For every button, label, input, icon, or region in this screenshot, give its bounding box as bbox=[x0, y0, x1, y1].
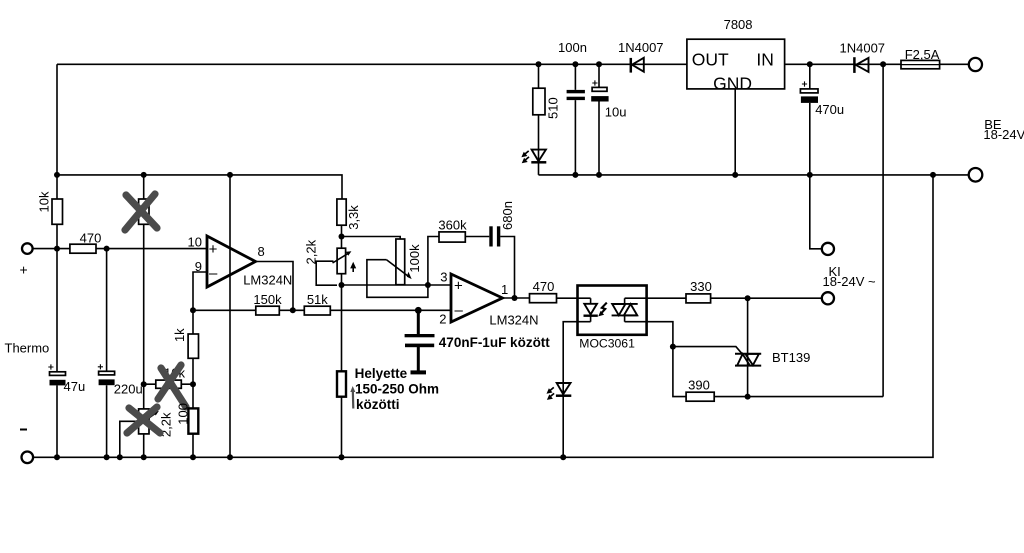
resistor 10k (thermistor pull-up) bbox=[37, 191, 63, 224]
svg-text:150-250 Ohm: 150-250 Ohm bbox=[355, 381, 439, 396]
svg-text:GND: GND bbox=[713, 74, 752, 94]
wire right ground rail y=175 bbox=[539, 174, 969, 176]
wire 360k to 680n to output node bbox=[465, 237, 514, 299]
resistor 330 bbox=[686, 279, 712, 303]
wire 2.2k trimmer wiper loop bbox=[316, 261, 337, 285]
resistor 150k bbox=[253, 292, 282, 315]
resistor 360k bbox=[438, 218, 467, 243]
svg-text:390: 390 bbox=[688, 377, 710, 392]
wire gate node down to 390 bbox=[673, 347, 686, 397]
wire 510/LED1 chain x=538.5 bbox=[538, 64, 540, 175]
svg-text:–: – bbox=[455, 302, 464, 319]
wire threshold row y=285 to op-amp2 pin3 bbox=[342, 284, 452, 286]
svg-text:47u: 47u bbox=[64, 379, 86, 394]
wire 3.3k to 2.2k trimmer column x=341.5 bbox=[341, 225, 343, 457]
svg-text:2: 2 bbox=[439, 312, 446, 327]
svg-text:BT139: BT139 bbox=[772, 350, 810, 365]
svg-text:3: 3 bbox=[440, 270, 447, 285]
terminal thermo + bbox=[20, 243, 33, 277]
svg-text:2,2k: 2,2k bbox=[303, 239, 318, 264]
wire crossed 10k stubs bbox=[144, 383, 193, 385]
wire crossed-column x=143.7 bbox=[143, 175, 145, 457]
svg-text:1: 1 bbox=[501, 282, 508, 297]
triac BT139 bbox=[735, 350, 810, 366]
svg-text:közötti: közötti bbox=[356, 397, 400, 412]
capacitor 100n bbox=[558, 40, 587, 100]
svg-text:–: – bbox=[209, 265, 218, 282]
terminal KI lower bbox=[822, 292, 834, 304]
svg-text:8: 8 bbox=[258, 244, 265, 259]
wire op-amp1 output pin8 down to 150k/51k junction bbox=[256, 262, 294, 311]
svg-text:Helyette: Helyette bbox=[355, 366, 408, 381]
label BE 18-24V bbox=[983, 117, 1024, 142]
label Helyette 150-250 Ohm közötti bbox=[355, 366, 439, 412]
svg-text:220u: 220u bbox=[114, 382, 143, 397]
op-amp U1B LM324N bbox=[439, 270, 538, 328]
svg-text:100k: 100k bbox=[407, 244, 422, 273]
resistor 51k bbox=[304, 292, 330, 315]
svg-text:OUT: OUT bbox=[692, 50, 729, 70]
capacitor 10u bbox=[591, 80, 626, 119]
svg-text:330: 330 bbox=[690, 279, 712, 294]
svg-text:+: + bbox=[20, 262, 28, 278]
svg-text:18-24V ~: 18-24V ~ bbox=[823, 274, 877, 289]
wire 10u branch x=599 bbox=[598, 64, 600, 175]
LED1 (power indicator) bbox=[521, 150, 546, 164]
wire 470u branch down to KI upper terminal bbox=[810, 64, 822, 249]
svg-text:100: 100 bbox=[176, 403, 191, 425]
svg-text:Thermo: Thermo bbox=[5, 341, 50, 356]
resistor 510 bbox=[533, 88, 561, 119]
capacitor 470u bbox=[800, 81, 844, 116]
capacitor 470nF (thick hand-drawn) bbox=[405, 310, 435, 374]
terminal KI upper bbox=[822, 243, 834, 255]
op-amp U1A LM324N bbox=[188, 235, 293, 288]
svg-text:10k: 10k bbox=[37, 191, 52, 212]
svg-text:680n: 680n bbox=[500, 201, 515, 230]
wire feedback row y=310 (pin9 node,150k,51k,470n,pin2) bbox=[193, 309, 451, 311]
wire MOC triac bottom to gate node bbox=[625, 322, 673, 347]
svg-text:+: + bbox=[454, 278, 463, 295]
svg-text:100n: 100n bbox=[558, 40, 587, 55]
svg-text:9: 9 bbox=[195, 259, 202, 274]
optocoupler MOC3061 bbox=[578, 286, 647, 351]
svg-text:10u: 10u bbox=[605, 105, 627, 120]
wire hysteresis branch up from pin3 node bbox=[428, 237, 439, 286]
svg-text:360k: 360k bbox=[438, 218, 467, 233]
wire bottom ground rail y=457 bbox=[33, 175, 933, 457]
cross-out X3 bbox=[127, 407, 160, 433]
wire 220u branch x=106.6 bbox=[106, 249, 108, 458]
annotation arrow Helyette bbox=[350, 386, 355, 409]
resistor 390 bbox=[686, 377, 714, 401]
wire left mid rail y=175 (8V rail to 3.3k corner) bbox=[57, 175, 342, 199]
wire column x=230 (rail to rail through op-amp) bbox=[229, 175, 231, 457]
svg-text:3,3k: 3,3k bbox=[346, 205, 361, 230]
svg-text:470: 470 bbox=[80, 231, 102, 246]
resistor 470 (opto drive) bbox=[530, 279, 557, 303]
wire MOC triac top to 330 bbox=[625, 297, 686, 299]
resistor crossed 10k horizontal (deleted) bbox=[156, 366, 186, 389]
svg-text:18-24V: 18-24V bbox=[983, 127, 1024, 142]
wire 100k pot wiper loop bbox=[367, 260, 428, 298]
svg-text:LM324N: LM324N bbox=[489, 313, 538, 328]
svg-text:LM324N: LM324N bbox=[243, 273, 292, 288]
svg-text:1k: 1k bbox=[172, 328, 187, 342]
cross-out X2 bbox=[158, 365, 186, 407]
diode D2 1N4007 bbox=[840, 40, 886, 73]
wire top +V rail y=64 bbox=[57, 63, 969, 65]
resistor crossed-out vertical (deleted) bbox=[139, 199, 149, 224]
wire 1k/100 column x=193 bbox=[192, 310, 194, 457]
svg-text:1N4007: 1N4007 bbox=[840, 40, 886, 55]
svg-text:1N4007: 1N4007 bbox=[618, 40, 664, 55]
fuse F2,5A bbox=[901, 47, 940, 69]
regulator 7808 bbox=[687, 17, 785, 94]
potentiometer 100k bbox=[387, 239, 422, 285]
wire left vertical branch x=57 (top rail to thermo node to bottom rail, gap at 47u) bbox=[56, 64, 58, 457]
wire MOC led cathode out to LED2 chain bbox=[563, 322, 590, 458]
svg-text:470: 470 bbox=[533, 279, 555, 294]
wire crossed trimmer wiper return bbox=[120, 421, 140, 457]
svg-text:+: + bbox=[209, 241, 218, 258]
resistor 150-250 Ohm (added, Helyette) bbox=[337, 371, 346, 396]
terminal BE lower bbox=[969, 168, 983, 182]
svg-text:51k: 51k bbox=[307, 292, 328, 307]
label KI 18-24V ~ bbox=[823, 264, 877, 289]
capacitor 220u bbox=[98, 364, 143, 396]
wire gate node to BT139 gate bbox=[673, 347, 742, 354]
LED2 (opto indicator) bbox=[547, 383, 572, 400]
wire thermo input to op-amp pin10 bbox=[33, 248, 207, 250]
svg-text:IN: IN bbox=[756, 50, 774, 70]
capacitor 47u bbox=[48, 364, 85, 394]
svg-text:470nF-1uF között: 470nF-1uF között bbox=[439, 335, 551, 350]
wire 100n branch x=575.4 bbox=[574, 64, 576, 175]
resistor 100 (added) bbox=[176, 403, 199, 434]
resistor 1k bbox=[172, 328, 198, 358]
svg-text:10: 10 bbox=[188, 235, 202, 250]
terminal thermo - bbox=[20, 430, 33, 464]
svg-text:150k: 150k bbox=[253, 292, 282, 307]
svg-text:510: 510 bbox=[546, 97, 561, 119]
terminal BE upper bbox=[969, 58, 982, 71]
cross-out X1 bbox=[125, 194, 157, 230]
svg-text:MOC3061: MOC3061 bbox=[579, 336, 635, 350]
svg-text:7808: 7808 bbox=[724, 17, 753, 32]
wire 7808 GND pin bbox=[734, 89, 736, 175]
wire op-amp1 pin9 to feedback node bbox=[193, 272, 207, 310]
resistor 3,3k bbox=[337, 199, 361, 230]
wire divider node to 100k pot top bbox=[342, 237, 401, 240]
wire BT139 main vertical bbox=[747, 298, 749, 396]
svg-text:F2,5A: F2,5A bbox=[905, 47, 940, 62]
wire op-amp2 output to 470 to MOC bbox=[503, 297, 591, 299]
wire 390 to AC line up to top rail bbox=[714, 64, 883, 396]
wire 330 to KI lower terminal bbox=[711, 297, 822, 299]
svg-text:470u: 470u bbox=[815, 102, 844, 117]
trimmer 2,2k (threshold) bbox=[333, 248, 357, 274]
diode D1 1N4007 bbox=[618, 40, 664, 73]
resistor 470 (input series) bbox=[70, 231, 101, 254]
trimmer crossed 2,2k (deleted) bbox=[134, 409, 173, 437]
capacitor 680n bbox=[489, 201, 515, 246]
